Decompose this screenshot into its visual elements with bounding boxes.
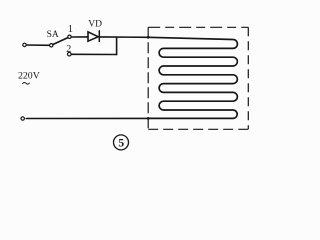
terminal (bottom-left input) (21, 117, 24, 120)
svg-text:220V: 220V (18, 71, 40, 82)
wire (contact 2 bypass, horizontal) (71, 53, 116, 55)
heating element (serpentine resistor) (148, 37, 237, 118)
switch SA blade (53, 38, 68, 45)
wire (contact 1 to diode anode) (71, 36, 88, 38)
terminal (top-left input) (23, 43, 26, 46)
enclosure (dashed heater housing), top side (148, 26, 248, 28)
switch contact 1 (68, 35, 71, 38)
enclosure bottom side (148, 128, 248, 130)
switch SA pivot (50, 44, 53, 47)
svg-text:5: 5 (118, 138, 124, 150)
figure number circle 5 (114, 135, 129, 150)
svg-text:2: 2 (66, 44, 71, 55)
wire (input to switch pivot) (26, 44, 49, 46)
enclosure right side (247, 27, 249, 129)
diode VD triangle (88, 32, 98, 41)
svg-text:SA: SA (47, 30, 59, 40)
enclosure left side (147, 27, 149, 129)
wire (bypass riser up to top wire) (116, 37, 118, 54)
wire (diode cathode to heater box, top feed) (99, 36, 148, 38)
AC tilde symbol (23, 82, 30, 84)
svg-text:1: 1 (68, 24, 73, 35)
node (junction at box entry, bottom) (147, 117, 150, 120)
diode VD cathode bar (98, 31, 100, 42)
svg-text:VD: VD (88, 19, 102, 29)
wire (bottom return to source) (26, 117, 148, 119)
node (junction at box entry, top) (147, 36, 150, 39)
switch contact 2 (68, 52, 72, 56)
